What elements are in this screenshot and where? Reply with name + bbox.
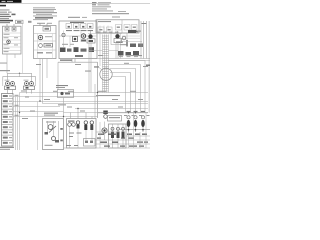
frame junction (19, 73, 20, 74)
sensor right (115, 34, 119, 38)
nested corner wires right (108, 61, 145, 113)
shield ladder band (103, 35, 109, 93)
box C relay row (66, 24, 93, 29)
sensor right wires (115, 43, 117, 59)
sensor left wires (88, 43, 90, 93)
box C dash row (66, 30, 93, 31)
bottom mid specks (66, 145, 78, 146)
top cross line (88, 33, 122, 35)
box B inner sub-box (43, 27, 51, 32)
box C connector row (60, 47, 94, 52)
side wire (22, 24, 24, 74)
box B label (37, 23, 45, 24)
bus into injectors (98, 112, 148, 114)
box A bottom wires (6, 54, 8, 73)
box C label text (68, 17, 80, 18)
box C row labels (62, 44, 68, 45)
box B contact (37, 52, 43, 54)
ladder rungs (103, 36, 109, 91)
shift lock innards (48, 125, 53, 130)
box D element 3 (90, 121, 93, 124)
ecm top box (96, 20, 139, 33)
box B pins top (39, 24, 41, 26)
box D inner labels (69, 133, 82, 138)
injector top specks (127, 111, 146, 112)
box D element 2 (84, 121, 87, 124)
bus text label (96, 95, 120, 96)
ecm inner boxes (98, 25, 137, 33)
box A outline (3, 26, 22, 54)
injector 1 (127, 116, 131, 132)
connector rows (2, 99, 14, 141)
transistor blob (102, 128, 107, 133)
left connector block (2, 94, 14, 147)
box A row text (4, 34, 19, 52)
valve frame wire outer (3, 77, 36, 81)
box B coil circle (38, 35, 42, 39)
right cluster connector row (118, 51, 139, 56)
box B inner rows (34, 34, 57, 51)
sensor feed wire (99, 34, 101, 67)
solenoid valve 2 (24, 81, 36, 94)
box A fuse cells (5, 27, 9, 31)
injector bus (120, 129, 150, 131)
top-right legend text (92, 2, 129, 14)
box B inner columns (37, 34, 52, 59)
diode module (58, 90, 74, 98)
injector 3 (141, 116, 145, 132)
box A pins (6, 24, 8, 26)
box C relay dots (68, 26, 92, 28)
center-left note text block (33, 7, 57, 20)
box E elements (111, 127, 125, 130)
box B coil circle 2 (39, 44, 43, 48)
left column text (0, 9, 16, 23)
ecm bottom dashes (97, 31, 119, 34)
box A relay circle (7, 40, 11, 44)
box C bus line (59, 35, 97, 37)
box D pins (71, 109, 93, 119)
title bar (0, 0, 22, 3)
box A inner rows (3, 33, 22, 51)
bottom right specks (97, 134, 148, 147)
right cluster wires (120, 34, 122, 59)
injector pin labels (124, 115, 150, 116)
box D inner wires (70, 127, 93, 148)
right cluster blobs (130, 44, 136, 48)
right cluster line (118, 41, 142, 43)
small component above box A (16, 20, 24, 23)
box B outline (34, 26, 57, 59)
connector row labels (3, 95, 8, 144)
harness circle (100, 68, 112, 80)
box C outline (59, 21, 97, 59)
header rule (0, 2, 150, 4)
bottom right verticals (100, 113, 146, 148)
junction dots (19, 92, 136, 117)
ecm dash row (128, 31, 138, 33)
box C coil 1 (62, 33, 65, 36)
right cluster bus lines (98, 58, 151, 60)
footer text (0, 147, 14, 148)
box C mid dash (75, 55, 83, 57)
legend speck right (118, 10, 126, 13)
box D coil pair (68, 123, 72, 127)
right top vertical wires (141, 21, 149, 113)
sensor left (88, 34, 92, 38)
wire label specks (21, 55, 148, 119)
big U bus wire (58, 61, 98, 63)
injector 2 (134, 116, 138, 132)
circle label (94, 66, 99, 67)
sensor right frame (111, 33, 127, 45)
long bus wires bottom (13, 93, 148, 117)
bottom right text rows (64, 132, 150, 148)
label box E top (108, 116, 122, 122)
box C bottom text (60, 60, 72, 61)
right cluster ring (122, 36, 126, 40)
corner label (131, 55, 142, 56)
heading mark (0, 5, 6, 7)
left vertical wire trio (16, 93, 20, 151)
mid cross line y50 (88, 50, 103, 52)
box C relay blob 1 (73, 37, 78, 42)
box D sub box (84, 139, 96, 147)
right wire ticks (142, 23, 147, 24)
shift lock label (44, 113, 58, 114)
valve label text (0, 63, 7, 64)
valve frame wire inner (8, 73, 32, 81)
ecm label (98, 21, 111, 22)
motor box D (67, 119, 97, 149)
row label specks (15, 95, 19, 116)
shift lock inner text (46, 122, 56, 123)
box E outline (109, 124, 127, 148)
box B bottom wires (39, 59, 41, 103)
box C inner verticals (63, 31, 65, 48)
ecm inner marks (99, 27, 136, 31)
diode module wire (63, 98, 65, 119)
right cluster blob top (128, 30, 136, 33)
drop wire left of box (36, 102, 38, 151)
valve labels (5, 79, 10, 82)
ecm inner verticals (100, 26, 108, 34)
box C bottom pins (71, 59, 73, 63)
shift lock pin labels (60, 128, 63, 130)
shift lock box (43, 119, 64, 150)
sensor cluster above box E (103, 111, 108, 115)
solenoid valve 1 (3, 81, 16, 94)
diode module label (56, 85, 68, 86)
box D element 1 (76, 121, 79, 124)
dropper wire (126, 40, 127, 47)
box B resistor (44, 44, 53, 48)
box C relay blob 2 (81, 34, 85, 38)
